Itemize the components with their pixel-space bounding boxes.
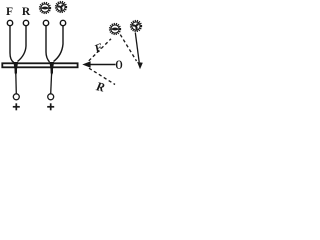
svg-text:F: F	[6, 6, 13, 18]
svg-text:O: O	[115, 59, 123, 73]
svg-text:R: R	[22, 6, 31, 18]
